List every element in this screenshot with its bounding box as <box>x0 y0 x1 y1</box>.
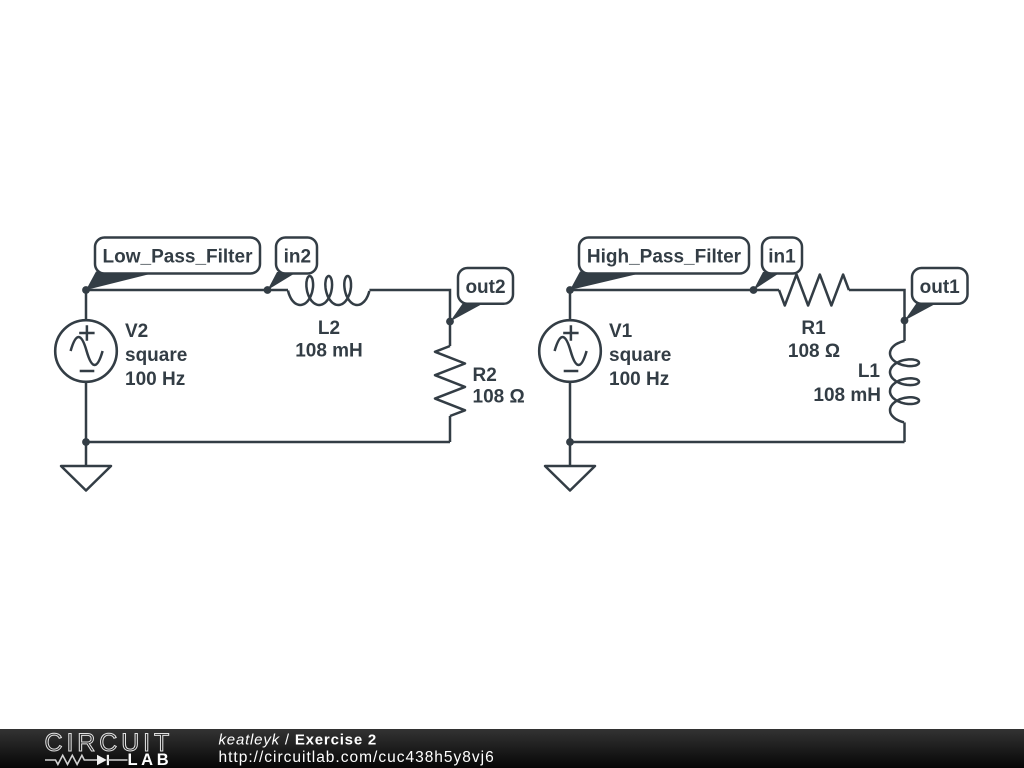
wire R1 right terminal to corner and down to out1 <box>849 290 905 341</box>
node top-left junction right <box>566 286 574 294</box>
svg-text:R1: R1 <box>801 318 826 339</box>
svg-text:Low_Pass_Filter: Low_Pass_Filter <box>103 247 254 268</box>
label R2 value <box>473 365 525 408</box>
node bottom-left junction right <box>566 438 574 446</box>
svg-text:108 mH: 108 mH <box>813 385 881 406</box>
footer title text <box>219 732 378 749</box>
node in1 <box>750 286 758 294</box>
wire ground stub <box>85 442 88 466</box>
wire top-left vertical (node to V2 top) <box>85 290 88 320</box>
svg-text:out2: out2 <box>465 277 505 298</box>
svg-text:http://circuitlab.com/cuc438h5: http://circuitlab.com/cuc438h5y8vj6 <box>219 749 495 766</box>
resistor R2 <box>435 346 465 416</box>
svg-text:High_Pass_Filter: High_Pass_Filter <box>587 247 742 268</box>
logo CIRCUIT outline text <box>45 729 174 757</box>
node in2 <box>264 286 272 294</box>
inductor L2 <box>288 276 369 305</box>
wire resistor bottom to bottom rail <box>449 416 452 442</box>
logo LAB bold text <box>128 751 173 768</box>
wire ground stub right <box>569 442 572 466</box>
label V2 value <box>125 321 187 390</box>
svg-text:L2: L2 <box>318 318 340 339</box>
ground symbol right <box>545 466 595 491</box>
svg-text:in1: in1 <box>768 247 796 268</box>
callout out1 <box>905 268 968 321</box>
label R1 value <box>788 318 840 362</box>
svg-text:R2: R2 <box>473 365 497 386</box>
svg-text:LAB: LAB <box>128 751 173 768</box>
callout out2 <box>450 268 513 322</box>
wire L1 bottom to bottom rail <box>903 422 906 442</box>
callout Low_Pass_Filter <box>86 238 260 291</box>
node top-left junction <box>82 286 90 294</box>
label L1 value <box>813 361 881 406</box>
wire L2 right terminal to top-right corner and down to out2 <box>369 290 450 346</box>
svg-text:out1: out1 <box>920 277 961 298</box>
wire top horizontal (node to L2 left terminal) <box>86 289 288 292</box>
svg-text:108 Ω: 108 Ω <box>473 387 525 408</box>
callout in1 <box>754 238 803 291</box>
callout High_Pass_Filter <box>570 238 749 291</box>
node out2 <box>446 318 454 326</box>
svg-text:keatleyk / Exercise 2: keatleyk / Exercise 2 <box>219 732 378 749</box>
svg-text:L1: L1 <box>858 361 881 382</box>
label L2 value <box>295 318 363 362</box>
logo diode symbol <box>97 755 128 765</box>
svg-text:100 Hz: 100 Hz <box>609 369 669 390</box>
footer bar <box>0 729 1024 768</box>
voltage source V2 <box>55 320 117 382</box>
callout in2 <box>268 238 318 291</box>
svg-text:square: square <box>609 345 671 366</box>
voltage source V1 <box>539 320 601 382</box>
svg-text:V1: V1 <box>609 321 633 342</box>
resistor R1 <box>779 275 849 306</box>
wire top-left vertical (node to V1 top) <box>569 290 572 320</box>
svg-text:in2: in2 <box>284 247 311 268</box>
wire bottom rail right <box>570 441 905 444</box>
label V1 value <box>609 321 671 390</box>
svg-text:V2: V2 <box>125 321 148 342</box>
svg-text:square: square <box>125 345 187 366</box>
wire V2 bottom to bottom node <box>85 382 88 442</box>
inductor L1 <box>890 341 919 422</box>
node out1 <box>901 317 909 325</box>
svg-text:100 Hz: 100 Hz <box>125 369 185 390</box>
footer url text <box>219 749 495 766</box>
node bottom-left junction <box>82 438 90 446</box>
svg-text:108 mH: 108 mH <box>295 341 363 362</box>
ground symbol left <box>61 466 111 491</box>
logo resistor squiggle wire <box>45 755 97 764</box>
svg-text:108 Ω: 108 Ω <box>788 341 840 362</box>
wire top horizontal (node to R1 left terminal) <box>570 289 779 292</box>
wire V1 bottom to bottom node <box>569 382 572 442</box>
wire bottom rail <box>86 441 450 444</box>
